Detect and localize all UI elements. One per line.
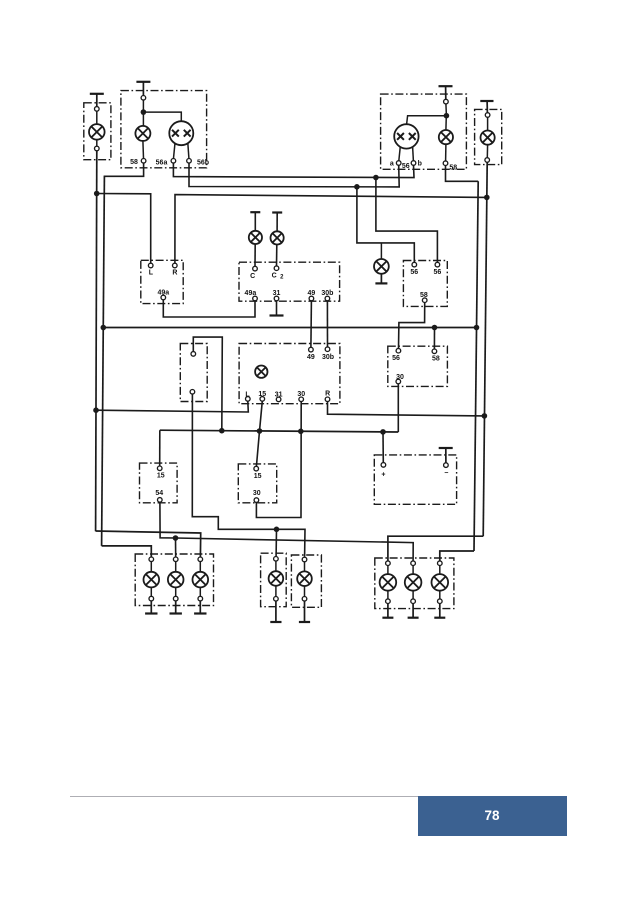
svg-text:L: L	[149, 269, 154, 276]
svg-text:56: 56	[434, 269, 442, 276]
ground below rear-right 58 lamp	[434, 603, 445, 617]
terminal on right headlamp feed	[444, 99, 449, 113]
terminal on left headlamp feed	[141, 96, 146, 110]
svg-text:56b: 56b	[197, 160, 209, 167]
node 15-bus/switch-15	[257, 428, 263, 434]
wire stop line	[192, 394, 305, 557]
svg-text:15: 15	[157, 473, 165, 480]
terminal stop switch bottom	[190, 390, 195, 395]
lamp rear-left brake lamp	[193, 561, 209, 596]
terminal R switch	[325, 397, 330, 402]
node V3/mid-bus tap	[474, 325, 480, 331]
terminal 49 flasher	[309, 296, 314, 301]
right headlamp box	[381, 94, 467, 169]
terminal top rear-right 54 lamp	[411, 561, 416, 566]
terminal R selector	[172, 263, 177, 276]
terminal bottom rear-right 58 lamp	[438, 599, 443, 604]
label 56 right headlamp	[402, 163, 410, 170]
svg-text:56: 56	[392, 355, 400, 362]
svg-text:30: 30	[253, 490, 261, 497]
wire 56b to a	[189, 163, 399, 187]
lamp high-beam indicator	[374, 259, 389, 274]
lamp left parking 58	[135, 126, 150, 141]
terminal 58 lighting switch	[432, 349, 440, 362]
wire 15 bus	[160, 430, 398, 432]
terminal 49a flasher	[253, 296, 258, 301]
terminal bottom rear-right 54 lamp	[411, 599, 416, 604]
wire V1 to rear-left turn lamp	[96, 531, 201, 557]
terminal 56 lighting switch	[392, 348, 401, 362]
label 30b flasher	[321, 290, 333, 297]
lamp E1 front-left turn	[84, 103, 111, 160]
rear-right lamp box	[375, 558, 454, 609]
label 30 switch	[297, 391, 305, 398]
svg-text:56a: 56a	[156, 160, 168, 167]
ground above left indicator lamp	[250, 212, 260, 231]
flasher relay box	[239, 262, 340, 301]
wire dimmer 56-left feed	[357, 187, 414, 263]
node 15-bus/stop-switch	[219, 428, 225, 434]
wire 56a to b	[173, 163, 414, 178]
node V1/switch-L tap	[93, 407, 99, 413]
wire light-switch 30 to 15 bus	[397, 384, 399, 432]
terminal top stop lamp left	[274, 557, 279, 562]
stop lamp left box	[261, 553, 287, 607]
lamp stop right	[297, 562, 312, 597]
label 30 lighting switch	[396, 374, 404, 381]
lamp rear-right 54 lamp	[405, 565, 422, 599]
terminal bottom stop lamp right	[302, 597, 307, 602]
svg-text:15: 15	[254, 473, 262, 480]
svg-text:b: b	[418, 160, 422, 167]
ground below rear-right 54 lamp	[408, 603, 419, 617]
lamp left headlamp 56a/56b	[169, 121, 193, 145]
node 15-bus/switch-30 crossing	[298, 429, 304, 435]
stop-light switch box	[180, 344, 207, 402]
terminal bottom rear-left turn lamp	[173, 596, 178, 601]
node 15-bus/battery	[380, 429, 386, 435]
junction in right headlamp	[444, 113, 450, 119]
wire 30b flasher to switch	[326, 301, 328, 347]
wire brake-left drop	[275, 529, 277, 556]
terminal 30 ignition	[254, 498, 259, 503]
svg-text:58: 58	[130, 159, 138, 166]
terminal 49 switch	[307, 347, 315, 361]
lamp stop left	[269, 561, 284, 597]
svg-text:58: 58	[449, 164, 457, 171]
wire switch-L line	[96, 401, 248, 412]
wire battery positive riser	[382, 432, 384, 463]
terminal 56 dimmer right	[434, 262, 442, 275]
terminal 56b left	[187, 159, 209, 167]
wire switch-30 to ignition 30	[256, 401, 301, 517]
ground above right indicator lamp	[272, 213, 282, 232]
wire 54 branch left lamp	[175, 538, 177, 557]
lamp turn indicator C	[249, 231, 262, 267]
fuse box 15/54	[140, 463, 178, 503]
node V4/switch-R tap	[482, 413, 488, 419]
label 15 switch	[258, 391, 266, 398]
terminal bottom rear-right turn lamp	[386, 599, 391, 604]
wire V4 to rear-right turn lamp	[388, 536, 483, 561]
wire trunk V2 58-left circuit	[102, 176, 105, 546]
ground above front-right turn lamp	[480, 101, 493, 113]
ground above front-left turn lamp	[90, 94, 104, 107]
lamp rear-right turn lamp	[380, 565, 397, 599]
wire to right parking lamp	[445, 116, 447, 130]
rear-left lamp box	[135, 554, 213, 606]
wire 58-left jog	[104, 163, 143, 177]
terminal 54 fuse box	[158, 498, 163, 503]
turn-signal switch box	[239, 344, 340, 404]
wire mid bus 58	[103, 327, 476, 329]
label 31 switch	[275, 392, 283, 399]
terminal a right	[390, 160, 401, 167]
terminal top rear-left brake lamp	[198, 557, 203, 562]
wire to left high-beam lamp	[143, 112, 181, 121]
terminal battery minus	[444, 463, 449, 477]
ignition switch box	[238, 464, 276, 503]
wire trunk V1 front-left turn circuit	[96, 151, 97, 532]
lamp turn indicator C2	[271, 231, 284, 266]
label 30 ignition	[253, 490, 261, 497]
lead from parking lamp to 58	[142, 141, 145, 158]
terminal 58 right	[443, 161, 457, 172]
lead from right parking lamp to 58	[445, 144, 447, 161]
lamp rear-left 58 lamp	[144, 561, 160, 596]
wire 54 feed drop	[160, 502, 176, 538]
wire mid-bus to light switch 58	[433, 328, 435, 350]
wire switch-R line	[328, 401, 485, 416]
wire switch-15 riser	[256, 401, 262, 466]
terminal top rear-left 58 lamp	[149, 557, 154, 562]
wire upper-L line	[97, 194, 151, 264]
wire dimmer 58 to light switch 56	[399, 302, 425, 348]
wire V3 to rear-right 58 lamp	[440, 551, 474, 561]
svg-text:56: 56	[410, 269, 418, 276]
terminal L selector	[148, 263, 153, 276]
footer rule	[70, 796, 418, 797]
node stop-line/brake-left	[274, 527, 280, 533]
wire 15 bus west riser	[159, 430, 161, 466]
label 49 flasher	[308, 290, 316, 297]
wire stop switch to 15 bus	[193, 337, 222, 431]
terminal 15 fuse box	[157, 466, 165, 480]
terminal top stop lamp right	[302, 557, 307, 562]
terminal 56 dimmer left	[410, 262, 418, 275]
terminal top rear-right 58 lamp	[438, 561, 443, 566]
svg-text:−: −	[444, 470, 448, 477]
terminal 15 switch	[260, 397, 265, 402]
left headlamp box	[121, 91, 207, 168]
wire 54 line to rear-right	[176, 538, 414, 561]
label R switch	[325, 390, 330, 397]
label 49a selector	[157, 290, 169, 297]
node V2/mid-bus tap	[101, 325, 107, 331]
dimmer relay box	[403, 261, 447, 307]
terminal bottom rear-left brake lamp	[198, 596, 203, 601]
node mid-bus/light-switch-58	[432, 325, 438, 331]
terminal bottom rear-left 58 lamp	[149, 596, 154, 601]
lamp rear-right 58 lamp	[432, 565, 449, 599]
turn selector box	[141, 260, 183, 303]
stop lamp right box	[291, 555, 321, 607]
node 56a-line/dimmer tap	[373, 175, 379, 181]
junction in left headlamp	[141, 109, 147, 115]
ground below rear-left 58 lamp	[145, 601, 157, 614]
wire to right high-beam lamp	[407, 116, 447, 125]
svg-text:a: a	[390, 160, 394, 167]
terminal battery plus	[381, 463, 386, 479]
ground at battery minus	[439, 448, 453, 463]
wire 58-right jog	[446, 165, 479, 181]
page number 78	[418, 796, 567, 836]
terminal 15 ignition	[254, 466, 262, 480]
label 58 dimmer	[420, 292, 428, 299]
lead to a	[399, 146, 401, 161]
wire V2 to rear-left 58 lamp	[102, 546, 152, 557]
ground below stop lamp right	[299, 601, 310, 622]
node 54-line/rear lamp	[173, 535, 179, 541]
wire 49 flasher to switch	[310, 301, 313, 348]
terminal L switch	[246, 397, 251, 402]
node 56b-line/dimmer tap	[354, 184, 360, 190]
terminal 30 switch	[299, 397, 304, 402]
node V1/upper-L tap	[94, 191, 100, 197]
svg-text:54: 54	[155, 490, 163, 497]
svg-text:C: C	[250, 273, 255, 280]
lead to b	[412, 147, 415, 161]
lamp rear-left turn lamp	[168, 561, 184, 596]
ground below stop lamp left	[270, 601, 281, 622]
ground above left headlamp	[136, 82, 150, 96]
terminal 31 flasher	[274, 296, 279, 301]
ground below rear-left brake lamp	[194, 601, 206, 614]
node V4/upper-R tap	[484, 195, 490, 201]
ground below rear-right turn lamp	[382, 603, 393, 617]
label 31 flasher	[273, 290, 281, 297]
terminal bottom stop lamp left	[274, 597, 279, 602]
wire trunk V4 front-right turn circuit	[483, 162, 487, 536]
lamp right headlamp a/b	[394, 124, 418, 148]
svg-text:C: C	[272, 272, 277, 279]
wire dimmer 56-right feed	[376, 178, 438, 263]
svg-text:30b: 30b	[322, 354, 334, 361]
terminal top rear-left turn lamp	[173, 557, 178, 562]
ground below high-beam indicator	[375, 274, 387, 284]
terminal 49a selector	[161, 295, 166, 300]
lamp right parking 58	[439, 130, 453, 144]
terminal b right	[411, 160, 422, 167]
lighting switch box	[388, 346, 448, 386]
lamp switch pilot	[255, 366, 267, 378]
wire to left parking lamp	[142, 112, 144, 126]
terminal stop switch top	[191, 352, 196, 357]
terminal top rear-right turn lamp	[386, 561, 391, 566]
terminal C flasher	[250, 266, 257, 279]
svg-text:58: 58	[432, 355, 440, 362]
battery box	[374, 455, 456, 504]
terminal 58 dimmer	[422, 298, 427, 303]
ground at flasher 31	[270, 301, 284, 316]
wire upper-R line	[175, 195, 487, 264]
svg-text:56: 56	[402, 163, 410, 170]
lead to 56b	[188, 143, 189, 159]
label 54 fuse box	[155, 490, 163, 497]
terminal 30 lighting switch	[396, 379, 401, 384]
terminal C2 flasher	[272, 266, 284, 280]
lamp E2 front-right turn	[475, 109, 502, 164]
terminal 30b switch	[322, 347, 334, 361]
svg-text:+: +	[381, 471, 385, 478]
wire trunk V3 58-right circuit	[474, 181, 478, 551]
label L switch	[245, 392, 250, 399]
terminal 30b flasher	[325, 296, 330, 301]
terminal 58 left	[130, 159, 146, 167]
wire aux lamp stem	[380, 243, 382, 259]
wire 49a selector to flasher	[163, 300, 255, 317]
label 49a flasher	[245, 290, 257, 297]
ground below rear-left turn lamp	[170, 601, 182, 614]
terminal 31 switch	[276, 397, 281, 402]
ground above right headlamp	[439, 86, 453, 99]
svg-text:R: R	[172, 269, 177, 276]
terminal 56a left	[156, 159, 176, 167]
svg-text:49: 49	[307, 354, 315, 361]
lead to 56a	[174, 143, 176, 158]
